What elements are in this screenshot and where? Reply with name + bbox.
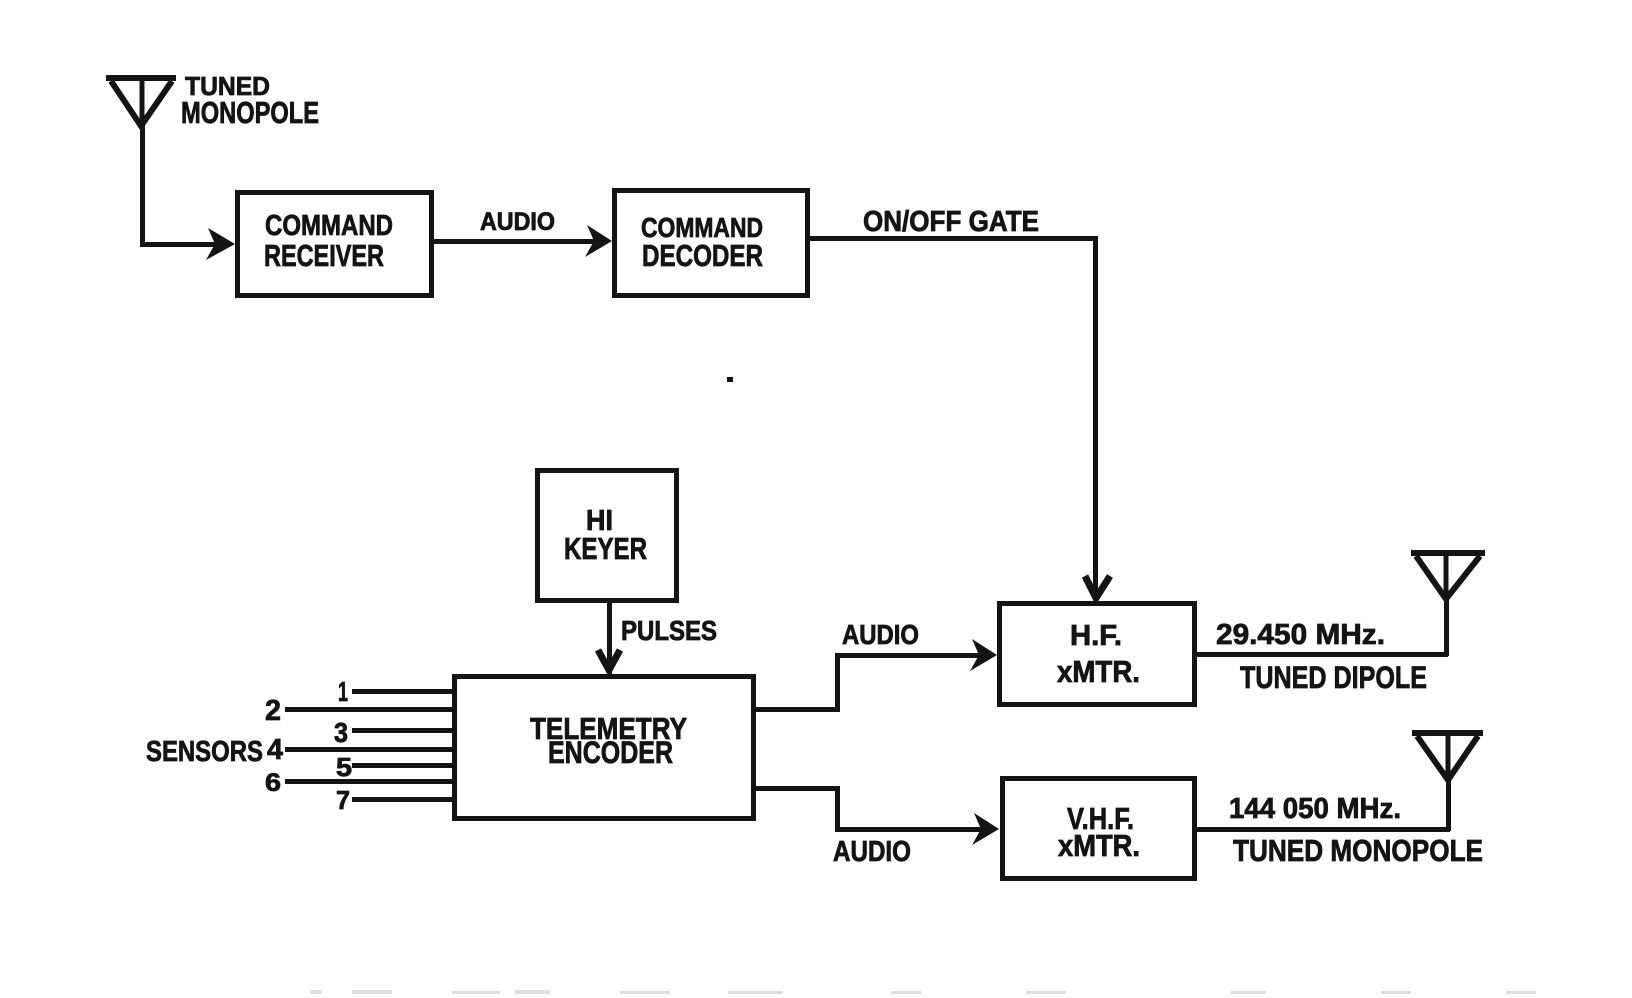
wire sensor 1 — [352, 689, 452, 694]
wire keyer to encoder — [607, 603, 612, 674]
label PULSES — [621, 617, 717, 645]
wire encoder to VHF stub — [756, 786, 839, 791]
wire encoder to HF stub — [756, 707, 839, 712]
wire sensor 6 — [285, 779, 452, 784]
label TUNED DIPOLE — [1240, 662, 1427, 694]
label sensor 2 — [265, 697, 281, 726]
wire monopole antenna stem — [1446, 780, 1451, 831]
wire sensor 5 — [352, 763, 452, 768]
wire HF to dipole antenna — [1197, 652, 1448, 657]
label sensor 7 — [336, 787, 350, 813]
arrowhead into HF xmtr — [970, 639, 997, 671]
arrowhead into receiver — [206, 228, 235, 260]
label RECEIVER — [264, 241, 384, 271]
H.F. XMTR box — [997, 601, 1197, 707]
label 144 050 MHz — [1229, 795, 1401, 824]
wire encoder to HF horizontal — [835, 653, 982, 658]
COMMAND DECODER box — [612, 188, 810, 298]
label AUDIO (VHF) — [833, 838, 911, 867]
label HI — [586, 507, 613, 536]
label 29.450 MHz — [1216, 621, 1385, 650]
label sensor 6 — [265, 772, 281, 797]
label H.F. — [1070, 622, 1122, 651]
label SENSORS — [146, 738, 263, 767]
label XMTR (VHF) — [1058, 831, 1140, 861]
label XMTR (HF) — [1057, 657, 1140, 687]
wire decoder to gate corner — [810, 236, 1098, 241]
label DECODER — [642, 241, 763, 271]
TELEMETRY ENCODER box — [452, 674, 756, 821]
antenna tuned monopole (top left) — [106, 78, 176, 126]
V.H.F. XMTR box — [1000, 776, 1197, 881]
HI KEYER box — [535, 468, 679, 603]
label COMMAND (receiver) — [265, 212, 393, 241]
stray dot mark — [727, 377, 733, 382]
arrowhead into VHF xmtr — [972, 813, 999, 845]
antenna tuned monopole (right bottom) — [1412, 733, 1483, 782]
label AUDIO (HF) — [842, 621, 919, 649]
label ENCODER — [548, 737, 673, 769]
wire encoder to VHF drop — [835, 786, 840, 832]
label TUNED MONOPOLE — [1233, 836, 1483, 866]
label ON/OFF GATE — [863, 208, 1039, 237]
label AUDIO (receiver-decoder) — [480, 211, 555, 236]
label sensor 1 — [338, 678, 348, 706]
label V.H.F. — [1067, 804, 1134, 834]
wire antenna1 to receiver — [140, 242, 215, 247]
wire antenna1 stem — [140, 124, 145, 246]
label TELEMETRY — [530, 714, 687, 744]
wire dipole antenna stem — [1444, 599, 1449, 656]
label sensor 3 — [334, 719, 348, 747]
wire VHF to monopole antenna — [1197, 827, 1450, 832]
wire sensor 4 — [285, 747, 452, 752]
faint cropped text remnants at bottom edge — [310, 990, 322, 994]
label COMMAND (decoder) — [641, 214, 763, 242]
antenna tuned dipole (right top) — [1411, 553, 1485, 601]
label sensor 4 — [267, 736, 283, 765]
arrowhead into decoder — [585, 225, 612, 257]
COMMAND RECEIVER box — [235, 190, 434, 298]
wire encoder to HF riser — [835, 653, 840, 712]
wire sensor 2 — [285, 707, 452, 712]
arrowhead gate into HF top — [1085, 576, 1110, 598]
arrowhead pulses into encoder — [598, 650, 620, 670]
label sensor 5 — [336, 754, 352, 780]
label TUNED — [185, 73, 270, 99]
label MONOPOLE — [181, 98, 319, 128]
wire sensor 3 — [352, 728, 452, 733]
wire receiver to decoder — [434, 239, 595, 244]
wire encoder to VHF horizontal — [835, 827, 984, 832]
label KEYER — [564, 534, 647, 564]
wire gate vertical — [1093, 236, 1098, 600]
wire sensor 7 — [352, 797, 452, 802]
